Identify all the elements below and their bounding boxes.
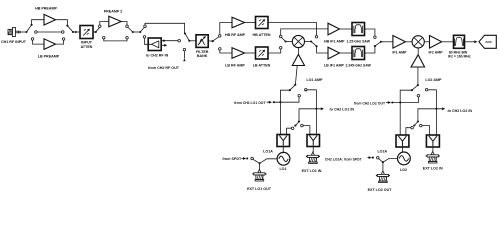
wire top bypass to filter xyxy=(145,23,185,33)
node SW4 pole xyxy=(132,31,134,33)
wire from CH2 LO1 OUT xyxy=(267,101,271,103)
svg-text:EXT LO2 OUT: EXT LO2 OUT xyxy=(368,188,393,192)
node to CH2 LO2 junction xyxy=(435,108,437,110)
wire SAW2 out xyxy=(365,46,375,53)
wire IF2 amp to filter xyxy=(441,41,453,43)
amplifier LO1 AMP xyxy=(292,54,304,65)
wire ext in to splitter2 xyxy=(312,147,314,153)
svg-text:CH1 RF INPUT: CH1 RF INPUT xyxy=(1,40,27,44)
wire mixer2 LO port xyxy=(417,48,419,55)
amplifier LB RF AMP xyxy=(232,48,245,59)
node LO2 SW12 pole xyxy=(417,84,419,86)
switch SW12 arm xyxy=(412,85,418,90)
contact SW12 right xyxy=(425,89,428,92)
wire mixer1 out xyxy=(305,41,312,43)
contact SW8 HB xyxy=(374,36,377,39)
switch SW9 arm xyxy=(290,85,296,91)
amplifier LO2 AMP xyxy=(411,55,425,67)
wire preamp2 input xyxy=(100,22,109,26)
node LO2 SW13 pole xyxy=(417,120,419,122)
contact SW7 LB xyxy=(219,48,222,51)
svg-text:IF2 AMP: IF2 AMP xyxy=(428,50,443,54)
attenuator LB ATTEN xyxy=(256,47,269,59)
filter 1.25-GHz SAW xyxy=(352,23,365,36)
node filter input xyxy=(188,40,190,42)
contact from CH2 RF OUT xyxy=(183,48,186,51)
wire mixer right to LB IF1 xyxy=(317,46,328,53)
svg-text:IF2 = 160 MHz: IF2 = 160 MHz xyxy=(448,55,471,59)
switch SW13 arm xyxy=(414,122,418,126)
svg-text:LO2: LO2 xyxy=(400,168,407,172)
wire LB IF1 to SAW xyxy=(340,52,353,54)
svg-text:HB IF1 AMP: HB IF1 AMP xyxy=(324,39,345,43)
contact SW3 preamp2 xyxy=(99,25,102,28)
node SW3 pole xyxy=(95,31,97,33)
node M1 right pole xyxy=(310,40,312,42)
svg-text:1.25-GHz SAW: 1.25-GHz SAW xyxy=(346,39,370,43)
contact SW5 direct xyxy=(144,25,147,28)
svg-text:HB RF AMP: HB RF AMP xyxy=(225,33,246,37)
node SW2 HB contact xyxy=(66,25,68,27)
switch SW3 arm to preamp2 xyxy=(96,27,100,32)
wire preamp2 bypass xyxy=(104,39,127,41)
wire filter to ADC xyxy=(465,41,476,43)
node SW5 pole xyxy=(139,31,141,33)
mixer M2 xyxy=(412,36,424,48)
contact SW5 to splitter xyxy=(143,36,146,39)
contact LO2A switch xyxy=(377,156,380,159)
contact SW10 right xyxy=(301,124,304,127)
switch SW5 arm up xyxy=(140,27,144,32)
svg-text:EXT LO1 OUT: EXT LO1 OUT xyxy=(247,187,272,191)
node SW8 pole xyxy=(380,41,382,43)
splitter LO1A xyxy=(277,135,290,147)
connector EXT LO2 OUT xyxy=(382,171,384,174)
switch SW1 arm to HB xyxy=(27,25,32,32)
svg-text:ADC: ADC xyxy=(485,40,492,44)
svg-text:LO1: LO1 xyxy=(279,167,286,171)
contact SW7 HB xyxy=(219,35,222,38)
mixer M1 xyxy=(292,35,304,47)
wire SAW1 out xyxy=(365,29,375,36)
wire LO2A to osc xyxy=(383,159,398,163)
contact SW3 bypass xyxy=(103,36,106,39)
wire osc to splitter LO2A xyxy=(401,147,403,152)
switch SW2 arm xyxy=(67,26,73,32)
wire from SPDT xyxy=(242,158,245,160)
svg-text:from CH2 LO2 OUT: from CH2 LO2 OUT xyxy=(354,102,386,106)
contact SW4 preamp2 xyxy=(126,25,129,28)
wire SW8 to IF1 amp xyxy=(381,41,393,43)
svg-text:BANK: BANK xyxy=(197,54,208,58)
wire mixer2 to IF2 amp xyxy=(424,41,429,43)
wire mixer left to HB IF1 xyxy=(281,29,328,35)
wire SW9 left to splitter1 xyxy=(280,90,289,134)
wire to filter bank xyxy=(189,40,196,42)
oscillator LO1 xyxy=(277,152,290,165)
wire LO2 amp feed xyxy=(417,67,419,85)
contact SW13 right xyxy=(420,124,423,127)
switch SW8 arm xyxy=(375,42,381,46)
wire HB IF1 to SAW xyxy=(340,28,353,30)
switch M1 left arm xyxy=(281,37,285,41)
splitter LO2A xyxy=(396,135,409,147)
wire mixer1 LO port xyxy=(297,48,299,55)
wire to EXT LO1 OUT xyxy=(259,163,261,169)
switch SW14 arm xyxy=(378,158,382,162)
node SW2 pole xyxy=(72,31,74,33)
wire IF1 amp to mixer2 xyxy=(405,41,412,43)
contact from CH2 LO1 xyxy=(298,95,301,98)
node LO1 SW10 pole xyxy=(298,121,300,123)
contact SW13 left xyxy=(411,126,414,129)
contact SW9 right xyxy=(305,89,308,92)
filter FILTER BANK xyxy=(196,35,208,48)
splitter LO1B xyxy=(307,135,320,147)
oscillator LO2 xyxy=(398,152,411,165)
wire HB amp to atten xyxy=(245,22,256,24)
filter 80 MHz BW IF2 xyxy=(454,35,465,48)
contact SW1 bypass xyxy=(35,31,38,34)
contact filter sw from splitter xyxy=(178,39,181,42)
switch M1 right arm xyxy=(311,42,316,47)
switch SW7 arm to HB xyxy=(213,36,220,41)
svg-text:LB IF1 AMP: LB IF1 AMP xyxy=(324,64,345,68)
connector J1 CH1 RF INPUT xyxy=(8,27,20,36)
node filter sw top xyxy=(184,32,186,34)
contact M1 left HB xyxy=(279,35,282,38)
wire osc to splitter1 xyxy=(282,147,284,153)
svg-text:EXT LO1 IN: EXT LO1 IN xyxy=(302,169,322,173)
connector EXT LO1 OUT xyxy=(258,169,260,172)
amplifier HB PREAMP xyxy=(44,14,56,25)
connector EXT LO1 IN xyxy=(312,152,314,155)
splitter to CH2 RF xyxy=(148,38,161,51)
converter ADC xyxy=(479,35,496,48)
wire LO1 amp feed xyxy=(295,66,297,85)
switch SW4 arm xyxy=(128,27,133,32)
svg-text:HB PREAMP: HB PREAMP xyxy=(35,6,57,10)
attenuator INPUT ATTEN xyxy=(80,26,93,39)
switch SW6 arm xyxy=(185,34,189,41)
amplifier LB PREAMP xyxy=(44,39,56,50)
wire bypass line xyxy=(37,31,61,33)
wire preamp2 output xyxy=(121,22,127,26)
node SW11 pole xyxy=(259,162,261,164)
amplifier PREAMP 2 xyxy=(109,16,121,27)
wire splitter main out xyxy=(161,40,178,42)
contact M1 left LB xyxy=(279,47,282,50)
svg-text:from CH2 RF OUT: from CH2 RF OUT xyxy=(148,66,180,70)
wire into mixer1 xyxy=(286,41,293,43)
contact SW10 left xyxy=(291,127,294,130)
svg-text:LB PREAMP: LB PREAMP xyxy=(38,54,60,58)
amplifier IF1 AMP xyxy=(393,36,406,49)
node M1 right LB xyxy=(316,45,318,47)
contact SW2 bypass xyxy=(62,31,65,34)
connector EXT LO2 IN xyxy=(432,151,434,154)
svg-text:from CH2 LO1 OUT: from CH2 LO1 OUT xyxy=(234,101,266,105)
svg-text:LO2A: LO2A xyxy=(377,150,387,154)
node M1 left pole xyxy=(285,40,287,42)
wire to HB RF amp xyxy=(220,23,232,35)
switch SW10 arm xyxy=(295,122,299,126)
svg-text:EXT LO2 IN: EXT LO2 IN xyxy=(423,167,443,171)
wire SW12 left to splitter1 xyxy=(400,90,412,135)
wire SW9 right to splitter2 xyxy=(305,90,307,91)
contact SW1 LB xyxy=(31,38,34,41)
amplifier IF2 AMP xyxy=(430,36,442,49)
switch SW11 arm xyxy=(253,159,260,163)
contact M1 right HB xyxy=(315,36,318,39)
wire SW12 right to splitter2 xyxy=(428,90,437,135)
wire HB preamp input xyxy=(32,20,44,25)
node SW9 left xyxy=(289,89,291,91)
svg-text:LO2 AMP: LO2 AMP xyxy=(425,78,442,82)
wire SW4 to SW5 xyxy=(133,31,140,33)
wire CH2 LO2A from SPDT xyxy=(368,157,371,159)
node splitter out xyxy=(163,40,165,42)
node SW8 LB xyxy=(374,45,376,47)
svg-text:HB ATTEN: HB ATTEN xyxy=(253,33,271,37)
node SW14 pole xyxy=(382,161,384,163)
node SW7 pole xyxy=(212,40,214,42)
wire LB amp to atten xyxy=(245,52,256,54)
filter 2.345-GHz SAW xyxy=(352,47,365,60)
wire from CH2 LO2 OUT xyxy=(386,102,389,104)
wire atten output xyxy=(93,31,97,33)
wire filter output xyxy=(208,40,214,42)
node atten input xyxy=(75,31,77,33)
svg-text:to CH2 RF IN: to CH2 RF IN xyxy=(146,54,169,58)
svg-text:to CH2 LO2 IN: to CH2 LO2 IN xyxy=(448,109,473,113)
wire input to switch SW1 xyxy=(20,31,26,33)
contact SW4 bypass xyxy=(126,36,129,39)
svg-text:ATTEN: ATTEN xyxy=(81,45,93,49)
amplifier HB RF AMP xyxy=(232,17,245,28)
wire to CH2 RF IN arrow xyxy=(161,44,164,46)
contact from CH2 LO2 xyxy=(417,95,420,98)
attenuator HB ATTEN xyxy=(256,17,269,29)
svg-text:PREAMP 2: PREAMP 2 xyxy=(104,10,123,14)
svg-text:IF1 AMP: IF1 AMP xyxy=(392,50,407,54)
svg-text:LO1A: LO1A xyxy=(263,149,273,153)
wire to CH2 LO2 IN xyxy=(418,109,442,122)
wire LB atten to mixer left contact xyxy=(268,49,281,53)
node from CH2 LO2 junction xyxy=(399,101,401,103)
wire HB atten to mixer right contact xyxy=(268,23,317,36)
node from CH2 LO1 junction xyxy=(279,101,281,103)
wire HB preamp output xyxy=(56,20,68,26)
wire to EXT LO2 OUT xyxy=(382,162,384,171)
svg-text:from SPDT: from SPDT xyxy=(222,157,242,161)
splitter LO2B xyxy=(426,135,439,147)
wire to CH2 LO1 IN xyxy=(299,109,321,122)
contact LO1A switch xyxy=(251,157,254,160)
svg-text:LB RF AMP: LB RF AMP xyxy=(225,63,245,67)
wire to LB RF amp xyxy=(220,50,232,53)
amplifier LB IF1 AMP xyxy=(328,47,340,59)
node SW1 pole xyxy=(25,31,27,33)
svg-text:to CH2 LO1 IN: to CH2 LO1 IN xyxy=(330,108,355,112)
svg-text:LO1 AMP: LO1 AMP xyxy=(306,78,323,82)
amplifier HB IF1 AMP xyxy=(328,23,340,35)
svg-text:LB ATTEN: LB ATTEN xyxy=(253,63,271,67)
contact SW2 LB xyxy=(62,38,65,41)
wire ext in to splitter LO2B xyxy=(432,147,434,151)
wire LO1A to osc xyxy=(260,159,278,164)
svg-text:2.345-GHz SAW: 2.345-GHz SAW xyxy=(345,64,371,68)
node LO1 SW9 pole xyxy=(294,84,296,86)
node SW12 left xyxy=(411,89,413,91)
svg-text:CH2 LO2A: from SPDT: CH2 LO2A: from SPDT xyxy=(325,157,363,161)
node to CH2 LO1 junction xyxy=(315,108,317,110)
wire to input atten xyxy=(73,31,80,33)
